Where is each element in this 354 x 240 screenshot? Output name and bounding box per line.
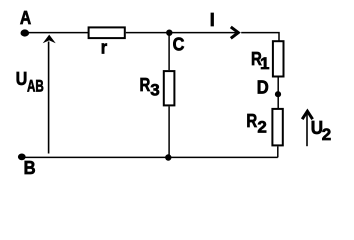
- svg-text:I: I: [210, 10, 215, 30]
- resistor r: [89, 27, 125, 38]
- node B terminal dot: [18, 154, 26, 161]
- bottom rail junction dot under R3: [165, 154, 171, 160]
- wire: R1 bottom through node D to R2 top: [277, 78, 279, 109]
- wire: node C down to R3 top: [168, 33, 170, 71]
- resistor R2: [272, 109, 282, 145]
- svg-text:3: 3: [150, 80, 159, 99]
- svg-text:r: r: [101, 37, 107, 57]
- current arrow I head: [231, 27, 239, 38]
- svg-text:AB: AB: [27, 76, 44, 95]
- svg-text:2: 2: [322, 125, 331, 144]
- wire top: resistor r to node C: [126, 32, 170, 34]
- wire: R3 bottom to bottom rail junction: [168, 106, 170, 157]
- resistor R3: [164, 71, 175, 105]
- resistor R1: [273, 41, 284, 76]
- svg-text:2: 2: [257, 118, 266, 137]
- voltage arrow UAB head: [43, 35, 56, 44]
- node C junction dot: [166, 30, 172, 36]
- svg-text:R: R: [246, 111, 257, 131]
- wire top: node C to current arrow tip: [169, 32, 237, 34]
- svg-text:C: C: [173, 34, 185, 54]
- wire bottom rail: node B to below R2: [22, 156, 278, 158]
- svg-text:A: A: [20, 8, 31, 28]
- svg-text:D: D: [257, 77, 269, 97]
- wire top: node A to resistor r: [24, 32, 88, 34]
- svg-text:1: 1: [260, 54, 269, 73]
- node A terminal dot: [21, 29, 30, 36]
- node D junction dot: [275, 91, 281, 97]
- voltage arrow U2 shaft: [306, 113, 308, 146]
- voltage arrow UAB shaft: [48, 42, 50, 154]
- wire top: arrow to corner above R1: [241, 33, 279, 41]
- svg-text:R: R: [140, 75, 151, 95]
- wire: R2 bottom to bottom rail: [277, 147, 279, 158]
- svg-text:U: U: [16, 69, 27, 89]
- voltage arrow U2 head: [302, 111, 312, 119]
- svg-text:B: B: [24, 158, 36, 178]
